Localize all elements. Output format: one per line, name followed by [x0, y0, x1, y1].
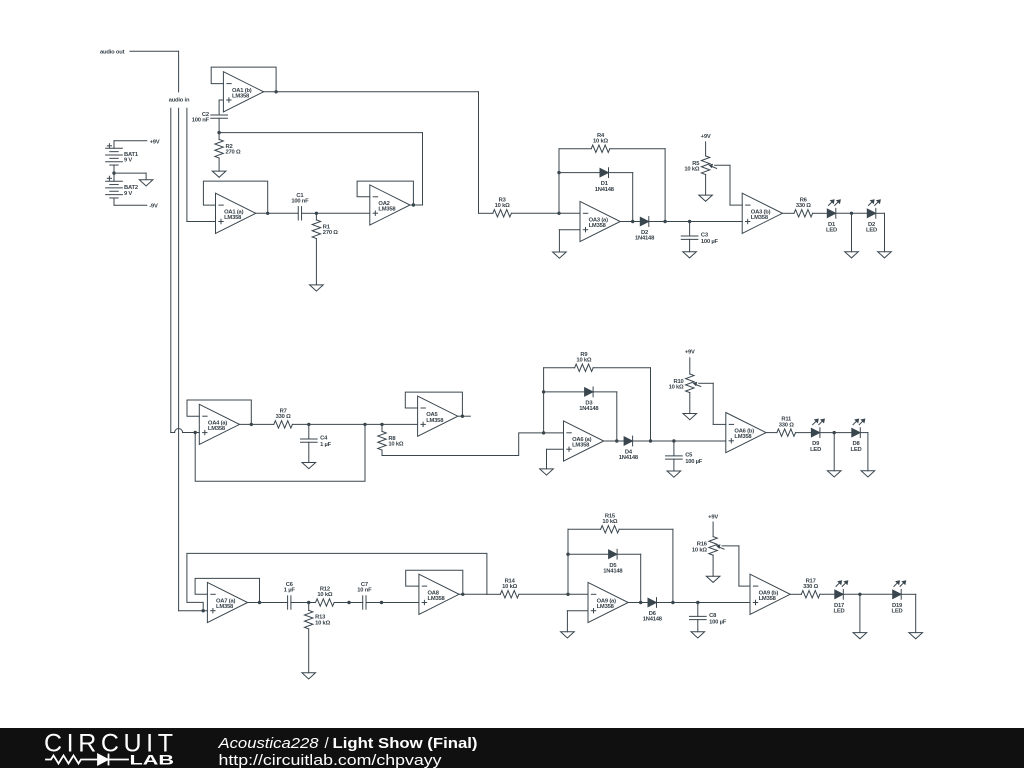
svg-text:10 kΩ: 10 kΩ — [495, 203, 510, 209]
node C2-R2 junction — [217, 131, 220, 134]
ground — [561, 632, 575, 638]
svg-text:LM358: LM358 — [589, 223, 607, 229]
svg-text:100 µF: 100 µF — [701, 239, 719, 245]
wire C2 junction to OA2 output — [219, 133, 422, 205]
svg-text:LAB: LAB — [130, 752, 175, 768]
svg-text:LM358: LM358 — [597, 604, 615, 610]
wire — [813, 212, 828, 214]
svg-text:+9V: +9V — [150, 139, 160, 145]
capacitor C5 100 µF — [666, 452, 703, 465]
wire — [479, 212, 493, 214]
node +9V supply label — [708, 514, 718, 536]
ground — [540, 469, 554, 475]
ground — [683, 414, 697, 420]
wire — [559, 148, 591, 150]
wire — [334, 602, 363, 604]
svg-text:270 Ω: 270 Ω — [226, 150, 241, 156]
node D3 return junction — [615, 439, 618, 442]
wire — [302, 212, 317, 214]
diode D6 1N4148 — [643, 598, 663, 623]
wire — [820, 432, 852, 434]
wire — [712, 555, 714, 576]
svg-text:C3: C3 — [701, 233, 709, 239]
node C1-R1 junction — [315, 212, 318, 215]
wire — [114, 173, 146, 180]
svg-text:100 nF: 100 nF — [192, 118, 210, 124]
svg-text:+9V: +9V — [701, 134, 711, 140]
node +9V supply label — [685, 350, 695, 374]
node LED junction — [833, 431, 836, 434]
svg-text:330 Ω: 330 Ω — [779, 422, 794, 428]
op-amp OA6 (b) LM358 — [726, 413, 766, 453]
op-amp OA6 (a) LM358 — [564, 421, 604, 461]
ground — [827, 471, 841, 477]
ground — [683, 252, 697, 258]
wire R15 to output node — [619, 529, 673, 602]
wire audio bus hop to OA4 + input — [171, 429, 200, 433]
wire — [568, 553, 609, 555]
wire OA8 output — [459, 593, 487, 595]
wire — [833, 433, 835, 471]
svg-text:Light Show (Final): Light Show (Final) — [333, 735, 478, 752]
svg-text:audio in: audio in — [169, 97, 190, 103]
ground — [212, 171, 226, 177]
node OA7 (a) output junction — [258, 601, 261, 604]
ground — [302, 463, 316, 469]
wire OA6 (a) + input to ground — [547, 449, 564, 469]
op-amp OA2 LM358 — [370, 185, 410, 225]
op-amp OA1 (a) LM358 — [216, 193, 256, 233]
svg-text:LM358: LM358 — [232, 93, 250, 99]
wire — [308, 603, 310, 611]
svg-text:10 kΩ: 10 kΩ — [502, 584, 517, 590]
svg-text:100 nF: 100 nF — [291, 198, 309, 204]
node OA4 + input junction — [194, 431, 197, 434]
node +9V supply rail label — [114, 139, 160, 148]
resistor R2 270 Ω — [215, 139, 241, 158]
wire — [568, 528, 601, 530]
node C6-R13 junction — [307, 601, 310, 604]
wire — [113, 165, 115, 181]
wire OA4 bottom feedback loop — [195, 424, 365, 481]
wire — [851, 213, 853, 251]
resistor R12 10 kΩ — [316, 587, 335, 607]
node LED junction — [858, 593, 861, 596]
node -9V supply rail label — [114, 198, 158, 209]
node C4 junction — [307, 423, 310, 426]
wire — [308, 424, 310, 439]
LED D8 — [851, 419, 866, 453]
svg-text:10 kΩ: 10 kΩ — [315, 620, 330, 626]
diode D1 1N4148 — [595, 168, 615, 193]
op-amp OA9 (a) LM358 — [588, 582, 628, 622]
node +9V supply label — [701, 134, 711, 156]
svg-text:-9V: -9V — [149, 203, 158, 209]
ground — [909, 633, 923, 639]
wire OA3 (a) + input to ground — [559, 230, 580, 252]
capacitor C1 100 nF — [291, 193, 309, 220]
wire — [860, 433, 868, 471]
op-amp OA8 LM358 — [419, 574, 459, 614]
resistor R14 10 kΩ — [500, 578, 519, 598]
node R8 junction — [380, 423, 383, 426]
schematic title Acoustica228 / Light Show (Final) — [217, 735, 477, 752]
wire audio-in bus to channel 1 — [187, 108, 216, 221]
wire feedback box OA7 (a) — [195, 578, 259, 602]
wire feedback box OA1 (a) — [203, 181, 267, 213]
wire OA9 (a) + input to ground — [567, 611, 588, 632]
wire OA5 output stub — [458, 415, 471, 417]
wire — [705, 175, 707, 196]
wire — [218, 133, 220, 140]
svg-text:330 Ω: 330 Ω — [276, 414, 291, 420]
resistor R3 10 kΩ — [493, 197, 512, 217]
wire feedback box OA2 — [357, 181, 413, 205]
ground — [699, 195, 713, 201]
wire — [673, 441, 675, 456]
svg-text:LED: LED — [834, 609, 845, 615]
potentiometer R16 10 kΩ — [692, 537, 724, 556]
svg-text:C8: C8 — [709, 613, 717, 619]
wire R5 wiper to OA3 (b) - input — [715, 165, 743, 205]
svg-text:1 µF: 1 µF — [284, 588, 296, 594]
node R15 return junction — [671, 601, 674, 604]
svg-text:http://circuitlab.com/chpvayy: http://circuitlab.com/chpvayy — [219, 753, 443, 768]
wire audio bus to OA7 + input — [179, 610, 208, 612]
wire — [820, 593, 835, 595]
wire — [544, 391, 585, 393]
wire feedback box OA4 (a) — [187, 400, 251, 424]
wire — [843, 593, 892, 595]
svg-text:100 µF: 100 µF — [685, 459, 703, 465]
wire — [248, 602, 288, 604]
node D1 branch junction — [557, 171, 560, 174]
wire — [697, 620, 699, 632]
wire R8 to OA6 (a) - input — [382, 433, 564, 456]
diode D4 1N4148 — [619, 436, 639, 461]
op-amp OA3 (a) LM358 — [580, 201, 620, 241]
wire — [796, 432, 812, 434]
LED D19 — [892, 580, 907, 614]
svg-text:10 kΩ: 10 kΩ — [388, 442, 403, 448]
wire — [859, 594, 861, 632]
resistor R11 330 Ω — [777, 417, 796, 437]
node OA6 - input junction — [542, 431, 545, 434]
node audio in label — [169, 97, 190, 103]
diode D5 1N4148 — [603, 549, 623, 574]
wire — [240, 423, 274, 425]
wire R10 wiper to OA6 (b) - input — [699, 383, 726, 424]
wire — [366, 602, 419, 604]
svg-text:1 µF: 1 µF — [320, 442, 332, 448]
wire — [689, 222, 691, 237]
svg-text:1N4148: 1N4148 — [603, 568, 623, 574]
resistor R4 10 kΩ — [591, 133, 610, 153]
resistor R15 10 kΩ — [601, 513, 620, 533]
wire feedback box OA1 (b) — [211, 67, 276, 92]
wire — [766, 432, 777, 434]
capacitor C3 100 µF — [681, 233, 718, 246]
svg-text:LM358: LM358 — [426, 418, 444, 424]
svg-text:1N4148: 1N4148 — [579, 406, 599, 412]
op-amp OA9 (b) LM358 — [750, 574, 790, 614]
node OA2 output junction — [412, 203, 415, 206]
node battery midpoint junction — [112, 171, 115, 174]
svg-text:LM358: LM358 — [208, 426, 226, 432]
wire — [256, 212, 299, 214]
wire OA3 (a) output — [620, 221, 640, 223]
capacitor C7 10 nF — [357, 582, 372, 609]
capacitor C2 100 nF — [192, 112, 228, 124]
diode D2 1N4148 — [635, 217, 655, 242]
resistor R17 330 Ω — [801, 578, 820, 598]
wire R4 to output node — [610, 149, 665, 222]
wire audio-in bus to channel 3 — [178, 108, 180, 611]
svg-text:Acoustica228: Acoustica228 — [217, 735, 319, 752]
wire — [291, 602, 315, 604]
node C3 junction — [688, 220, 691, 223]
wire — [657, 602, 751, 604]
op-amp OA3 (b) LM358 — [742, 193, 782, 233]
battery BAT2 9 V — [106, 176, 138, 198]
battery BAT1 9 V — [106, 144, 139, 165]
node wire junction — [347, 601, 350, 604]
node LED junction — [850, 212, 853, 215]
ground — [310, 285, 324, 291]
resistor R8 10 kΩ — [378, 431, 404, 450]
svg-text:330 Ω: 330 Ω — [803, 584, 818, 590]
svg-text:LM358: LM358 — [378, 207, 396, 213]
svg-text:LED: LED — [826, 228, 837, 234]
ground — [845, 252, 859, 258]
wire — [697, 603, 699, 617]
wire — [381, 424, 383, 431]
svg-text:1N4148: 1N4148 — [643, 617, 663, 623]
wire — [689, 239, 691, 251]
svg-text:audio out: audio out — [100, 50, 125, 56]
svg-text:LM358: LM358 — [572, 443, 590, 449]
node R3-R4-D1 junction — [557, 212, 560, 215]
node R4 return junction — [663, 220, 666, 223]
wire — [544, 367, 575, 369]
wire OA1 (b) output to R3 — [263, 92, 479, 214]
wire junction up to D1 and R4 — [558, 149, 560, 214]
wire — [308, 442, 310, 462]
wire OA9 (a) output — [628, 602, 648, 604]
wire feedback box OA5 — [405, 392, 462, 416]
wire — [218, 158, 220, 171]
wire — [410, 204, 423, 206]
svg-text:LED: LED — [851, 447, 862, 453]
wire — [633, 440, 726, 442]
wire — [673, 459, 675, 471]
resistor R1 270 Ω — [312, 220, 338, 239]
schematic URL — [219, 753, 443, 768]
wire — [511, 212, 580, 214]
capacitor C6 1 µF — [284, 582, 296, 609]
wire D3 to output node — [593, 392, 617, 441]
ground — [553, 252, 567, 258]
svg-text:10 nF: 10 nF — [357, 588, 372, 594]
node OA5 output junction — [461, 415, 464, 418]
node OA4 (a) output junction — [250, 423, 253, 426]
ground — [302, 673, 316, 679]
wire audio-in bus to channel 2 — [170, 108, 172, 432]
node C5 junction — [672, 439, 675, 442]
svg-text:+9V: +9V — [685, 350, 695, 356]
node C8 junction — [696, 601, 699, 604]
svg-text:1N4148: 1N4148 — [595, 187, 615, 193]
node D3 branch junction — [542, 390, 545, 393]
potentiometer R10 10 kΩ — [669, 374, 701, 393]
svg-text:10 kΩ: 10 kΩ — [593, 138, 608, 144]
wire — [315, 239, 317, 285]
ground — [853, 633, 867, 639]
op-amp OA1 (b) LM358 — [223, 72, 263, 112]
node D5 branch junction — [566, 553, 569, 556]
LED D9 — [810, 419, 825, 453]
svg-text:1N4148: 1N4148 — [635, 236, 655, 242]
wire — [901, 594, 916, 632]
resistor R6 330 Ω — [794, 197, 813, 217]
wire feedback box OA8 — [406, 570, 463, 594]
svg-text:330 Ω: 330 Ω — [796, 203, 811, 209]
capacitor C4 1 µF — [300, 435, 331, 448]
node D1 return junction — [631, 220, 634, 223]
node R14-R15-D5 junction — [566, 593, 569, 596]
ground — [139, 180, 153, 186]
wire — [487, 593, 500, 595]
wire junction up to D5 and R15 — [567, 529, 569, 594]
potentiometer R5 10 kΩ — [684, 156, 716, 175]
node OA7 + input junction — [202, 609, 205, 612]
node OA8 output junction — [461, 593, 464, 596]
footer bar — [0, 728, 1024, 768]
svg-text:C5: C5 — [685, 452, 693, 458]
resistor R13 10 kΩ — [305, 610, 331, 629]
capacitor C8 100 µF — [689, 613, 726, 626]
wire — [315, 213, 317, 220]
resistor R7 330 Ω — [274, 409, 293, 429]
svg-text:10 kΩ: 10 kΩ — [576, 358, 591, 364]
svg-text:LED: LED — [810, 447, 821, 453]
wire — [130, 51, 179, 92]
svg-text:LM358: LM358 — [224, 215, 242, 221]
svg-text:9 V: 9 V — [124, 191, 132, 197]
svg-text:LM358: LM358 — [428, 596, 446, 602]
wire — [689, 393, 691, 414]
wire R16 wiper to OA9 (b) - input — [722, 546, 750, 586]
wire — [308, 629, 310, 673]
svg-text:270 Ω: 270 Ω — [323, 230, 338, 236]
wire D5 to output node — [617, 554, 641, 602]
wire — [316, 212, 369, 214]
op-amp OA4 (a) LM358 — [199, 404, 239, 444]
wire — [519, 593, 588, 595]
svg-text:LED: LED — [866, 228, 877, 234]
op-amp OA5 LM358 — [418, 396, 458, 436]
svg-text:10 kΩ: 10 kΩ — [692, 547, 707, 553]
svg-text:LM358: LM358 — [751, 215, 769, 221]
svg-text:LED: LED — [892, 609, 903, 615]
ground — [691, 632, 705, 638]
svg-text:1N4148: 1N4148 — [619, 455, 639, 461]
node D5 return junction — [639, 601, 642, 604]
wire — [836, 212, 868, 214]
wire D1 to output node — [609, 173, 633, 222]
wire junction up to D3 and R9 — [543, 368, 545, 433]
wire OA1 (b) + input to C2 — [219, 100, 223, 115]
svg-text:C4: C4 — [320, 435, 328, 441]
ground — [861, 471, 875, 477]
CircuitLab logo — [44, 730, 178, 768]
ground — [706, 576, 720, 582]
wire — [876, 213, 885, 251]
svg-text:10 kΩ: 10 kΩ — [684, 167, 699, 173]
svg-text:LM358: LM358 — [759, 596, 777, 602]
wire — [649, 221, 742, 223]
wire — [790, 593, 801, 595]
ground — [667, 471, 681, 477]
ground — [878, 252, 892, 258]
LED D1 — [826, 199, 841, 233]
wire OA8 output loop to OA7 + input — [187, 553, 487, 610]
node R9 return junction — [649, 439, 652, 442]
svg-text:100 µF: 100 µF — [709, 619, 727, 625]
diode D3 1N4148 — [579, 387, 599, 412]
svg-text:10 kΩ: 10 kΩ — [602, 519, 617, 525]
wire — [559, 172, 600, 174]
op-amp OA7 (a) LM358 — [207, 582, 247, 622]
node wire junction — [380, 601, 383, 604]
wire — [292, 423, 417, 425]
node OA1 (a) output junction — [266, 212, 269, 215]
LED D2 — [866, 199, 881, 233]
wire R9 to output node — [593, 368, 650, 441]
svg-text:LM358: LM358 — [734, 434, 752, 440]
node audio out terminal — [100, 50, 125, 56]
wire — [218, 118, 220, 132]
resistor R9 10 kΩ — [575, 352, 594, 372]
node OA1 (b) output junction — [274, 90, 277, 93]
svg-text:LM358: LM358 — [216, 604, 234, 610]
svg-text:+9V: +9V — [708, 514, 718, 520]
node bottom loop junction — [363, 423, 366, 426]
wire — [782, 212, 794, 214]
svg-text:9 V: 9 V — [124, 158, 132, 164]
wire OA6 (a) output — [604, 440, 624, 442]
svg-text:10 kΩ: 10 kΩ — [317, 592, 332, 598]
svg-text:10 kΩ: 10 kΩ — [669, 385, 684, 391]
LED D17 — [834, 580, 849, 614]
